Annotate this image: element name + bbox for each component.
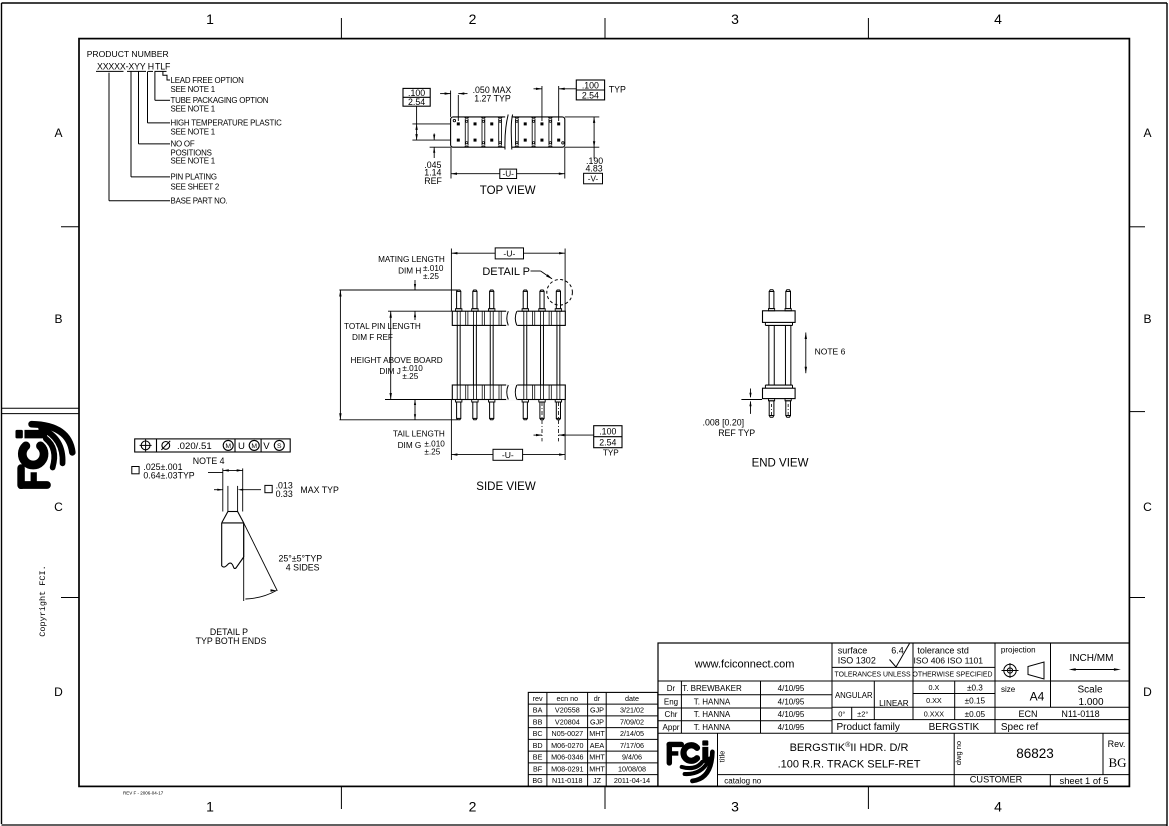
svg-text:T. HANNA: T. HANNA: [694, 723, 731, 732]
svg-text:3/21/02: 3/21/02: [620, 706, 644, 715]
svg-text:NOTE 4: NOTE 4: [193, 456, 225, 466]
svg-text:DIM F REF: DIM F REF: [352, 333, 393, 342]
svg-text:T. HANNA: T. HANNA: [694, 710, 731, 719]
svg-text:TYP: TYP: [609, 85, 626, 95]
svg-text:size: size: [1001, 685, 1016, 694]
svg-text:2.54: 2.54: [599, 437, 616, 447]
svg-text:M06-0270: M06-0270: [551, 741, 583, 750]
svg-text:GJP: GJP: [590, 717, 604, 726]
svg-text:HIGH TEMPERATURE PLASTIC: HIGH TEMPERATURE PLASTIC: [171, 119, 283, 128]
svg-text:A: A: [1143, 126, 1151, 140]
svg-text:2011-04-14: 2011-04-14: [614, 776, 650, 785]
svg-text:4/10/95: 4/10/95: [778, 684, 805, 693]
svg-text:M: M: [225, 443, 231, 450]
svg-text:AEA: AEA: [590, 741, 605, 750]
svg-text:2.54: 2.54: [582, 90, 599, 100]
svg-text:C: C: [54, 500, 63, 514]
svg-text:D: D: [1143, 685, 1152, 699]
svg-text:catalog no: catalog no: [724, 776, 761, 785]
svg-text:rev: rev: [533, 694, 543, 703]
svg-text:±0.15: ±0.15: [965, 696, 986, 705]
svg-text:MHT: MHT: [589, 764, 605, 773]
svg-text:REV F - 2006-04-17: REV F - 2006-04-17: [123, 791, 164, 796]
svg-text:BG: BG: [1108, 755, 1126, 770]
svg-text:Appr: Appr: [663, 723, 680, 732]
svg-text:Product family: Product family: [837, 722, 900, 733]
svg-text:T. BREWBAKER: T. BREWBAKER: [682, 684, 742, 693]
svg-text:6.4: 6.4: [891, 645, 904, 655]
svg-text:BA: BA: [533, 706, 543, 715]
svg-text:BG: BG: [532, 776, 543, 785]
svg-text:1: 1: [206, 11, 214, 27]
svg-text:TLF: TLF: [155, 62, 171, 72]
svg-text:HEIGHT ABOVE BOARD: HEIGHT ABOVE BOARD: [351, 356, 443, 365]
svg-text:N05-0027: N05-0027: [552, 729, 584, 738]
svg-text:3: 3: [731, 11, 739, 27]
svg-text:4/10/95: 4/10/95: [778, 710, 805, 719]
svg-text:BASE PART NO.: BASE PART NO.: [171, 197, 228, 206]
svg-text:0.33: 0.33: [276, 489, 293, 499]
svg-text:MATING LENGTH: MATING LENGTH: [378, 255, 445, 264]
svg-text:SIDE VIEW: SIDE VIEW: [476, 481, 536, 493]
svg-text:4: 4: [994, 798, 1002, 814]
svg-text:DETAIL P: DETAIL P: [482, 266, 530, 278]
svg-text:7/09/02: 7/09/02: [620, 717, 644, 726]
svg-text:±.25: ±.25: [424, 447, 440, 456]
svg-text:TOP VIEW: TOP VIEW: [480, 185, 536, 197]
svg-text:DIM G: DIM G: [398, 441, 422, 450]
svg-text:LINEAR: LINEAR: [879, 699, 909, 708]
svg-text:INCH/MM: INCH/MM: [1070, 653, 1114, 664]
svg-text:4: 4: [994, 11, 1002, 27]
svg-text:Chr: Chr: [665, 710, 678, 719]
svg-text:DIM H: DIM H: [398, 266, 421, 275]
svg-text:1: 1: [206, 798, 214, 814]
svg-text:Scale: Scale: [1077, 685, 1102, 696]
svg-text:M08-0291: M08-0291: [551, 764, 583, 773]
svg-text:B: B: [54, 312, 62, 326]
svg-text:TOLERANCES UNLESS OTHERWISE SP: TOLERANCES UNLESS OTHERWISE SPECIFIED: [835, 672, 993, 679]
svg-text:tolerance std: tolerance std: [917, 645, 969, 655]
svg-text:surface: surface: [838, 645, 868, 655]
svg-text:2: 2: [469, 798, 477, 814]
svg-text:SEE NOTE 1: SEE NOTE 1: [171, 105, 215, 114]
svg-text:END VIEW: END VIEW: [752, 458, 809, 470]
svg-text:XXXXX-XYY: XXXXX-XYY: [97, 62, 146, 72]
svg-text:BB: BB: [533, 717, 543, 726]
svg-text:C: C: [1143, 500, 1152, 514]
svg-text:T. HANNA: T. HANNA: [694, 697, 731, 706]
svg-text:ANGULAR: ANGULAR: [835, 691, 873, 700]
svg-text:SEE NOTE 1: SEE NOTE 1: [171, 128, 215, 137]
svg-text:ecn no: ecn no: [557, 694, 579, 703]
svg-text:±0.05: ±0.05: [965, 710, 986, 719]
svg-text:SEE SHEET 2: SEE SHEET 2: [171, 183, 220, 192]
svg-text:-U-: -U-: [502, 450, 514, 460]
svg-text:TAIL LENGTH: TAIL LENGTH: [393, 429, 445, 438]
svg-text:4/10/95: 4/10/95: [778, 723, 805, 732]
svg-text:S: S: [277, 443, 282, 450]
svg-text:dwg no: dwg no: [954, 741, 963, 765]
svg-text:projection: projection: [1001, 646, 1036, 655]
svg-text:REF: REF: [424, 176, 442, 186]
svg-text:U: U: [238, 441, 245, 452]
svg-text:V20804: V20804: [555, 717, 580, 726]
svg-text:-U-: -U-: [503, 170, 515, 179]
svg-text:±2°: ±2°: [857, 710, 868, 719]
svg-text:dr: dr: [594, 694, 601, 703]
svg-text:PRODUCT NUMBER: PRODUCT NUMBER: [87, 49, 169, 59]
svg-text:3: 3: [731, 798, 739, 814]
svg-text:CUSTOMER: CUSTOMER: [970, 775, 1023, 785]
svg-text:-V-: -V-: [588, 174, 599, 183]
svg-text:M: M: [251, 443, 257, 450]
svg-text:date: date: [625, 694, 639, 703]
svg-text:TOTAL PIN LENGTH: TOTAL PIN LENGTH: [344, 322, 421, 331]
svg-text:-U-: -U-: [503, 248, 515, 258]
svg-text:MAX TYP: MAX TYP: [300, 485, 339, 495]
svg-text:TYP BOTH ENDS: TYP BOTH ENDS: [196, 636, 267, 646]
svg-text:1.000: 1.000: [1078, 697, 1103, 708]
svg-text:www.fciconnect.com: www.fciconnect.com: [694, 658, 795, 670]
svg-text:H: H: [148, 62, 154, 72]
svg-text:ECN: ECN: [1018, 709, 1037, 719]
svg-text:Copyright FCI.: Copyright FCI.: [38, 565, 48, 636]
svg-text:MHT: MHT: [589, 729, 605, 738]
svg-text:ISO 406 ISO 1101: ISO 406 ISO 1101: [914, 655, 984, 665]
svg-text:Rev.: Rev.: [1108, 739, 1126, 749]
svg-text:LEAD FREE OPTION: LEAD FREE OPTION: [171, 76, 245, 85]
svg-text:.020/.51: .020/.51: [177, 441, 212, 452]
svg-text:NO OF: NO OF: [171, 140, 195, 149]
svg-text:±.25: ±.25: [423, 272, 439, 281]
svg-text:0.XX: 0.XX: [926, 696, 942, 705]
svg-text:GJP: GJP: [590, 706, 604, 715]
svg-text:10/08/08: 10/08/08: [618, 764, 646, 773]
svg-text:A: A: [54, 126, 62, 140]
svg-text:sheet 1 of 5: sheet 1 of 5: [1060, 775, 1109, 786]
svg-text:4/10/95: 4/10/95: [778, 697, 805, 706]
svg-text:PIN PLATING: PIN PLATING: [171, 173, 217, 182]
svg-text:4.83: 4.83: [586, 163, 603, 173]
svg-text:JZ: JZ: [593, 776, 602, 785]
svg-text:9/4/06: 9/4/06: [622, 753, 642, 762]
svg-text:Eng: Eng: [664, 697, 678, 706]
svg-text:2.54: 2.54: [408, 97, 425, 107]
svg-text:B: B: [1143, 312, 1151, 326]
svg-text:BF: BF: [533, 764, 543, 773]
svg-text:0.64±.03TYP: 0.64±.03TYP: [143, 471, 194, 481]
svg-text:NOTE 6: NOTE 6: [815, 346, 846, 356]
svg-text:1.27 TYP: 1.27 TYP: [474, 93, 511, 103]
svg-text:86823: 86823: [1016, 746, 1054, 761]
svg-text:2/14/05: 2/14/05: [620, 729, 644, 738]
svg-text:V: V: [263, 441, 270, 452]
svg-text:.100: .100: [582, 80, 599, 90]
svg-text:MHT: MHT: [589, 753, 605, 762]
svg-text:.100: .100: [599, 426, 616, 436]
svg-text:N11-0118: N11-0118: [1061, 709, 1099, 719]
svg-text:SEE NOTE 1: SEE NOTE 1: [171, 157, 215, 166]
svg-text:title: title: [718, 751, 727, 763]
svg-text:±.25: ±.25: [402, 372, 418, 381]
svg-text:7/17/06: 7/17/06: [620, 741, 644, 750]
svg-text:0.X: 0.X: [929, 683, 940, 692]
svg-text:REF TYP: REF TYP: [718, 428, 755, 438]
svg-text:.100 R.R. TRACK SELF-RET: .100 R.R. TRACK SELF-RET: [778, 759, 921, 771]
svg-text:0°: 0°: [838, 710, 845, 719]
svg-text:V20558: V20558: [555, 706, 580, 715]
svg-text:4 SIDES: 4 SIDES: [286, 563, 320, 573]
svg-text:D: D: [54, 685, 63, 699]
svg-text:A4: A4: [1030, 690, 1045, 704]
svg-text:±0.3: ±0.3: [967, 683, 983, 692]
svg-text:.008 [0.20]: .008 [0.20]: [703, 417, 745, 427]
svg-text:BC: BC: [533, 729, 543, 738]
svg-text:SEE NOTE 1: SEE NOTE 1: [171, 85, 215, 94]
svg-text:N11-0118: N11-0118: [552, 776, 583, 785]
svg-text:BD: BD: [533, 741, 543, 750]
svg-text:ISO 1302: ISO 1302: [838, 655, 876, 665]
svg-text:Dr: Dr: [667, 684, 676, 693]
svg-text:M06-0346: M06-0346: [551, 753, 583, 762]
svg-text:2: 2: [469, 11, 477, 27]
svg-text:BERGSTIK: BERGSTIK: [929, 722, 980, 733]
svg-text:TYP: TYP: [603, 448, 619, 457]
svg-text:DIM J: DIM J: [379, 367, 400, 376]
svg-text:Spec ref: Spec ref: [1001, 722, 1038, 733]
svg-text:0.XXX: 0.XXX: [924, 709, 945, 718]
svg-text:BE: BE: [533, 753, 543, 762]
